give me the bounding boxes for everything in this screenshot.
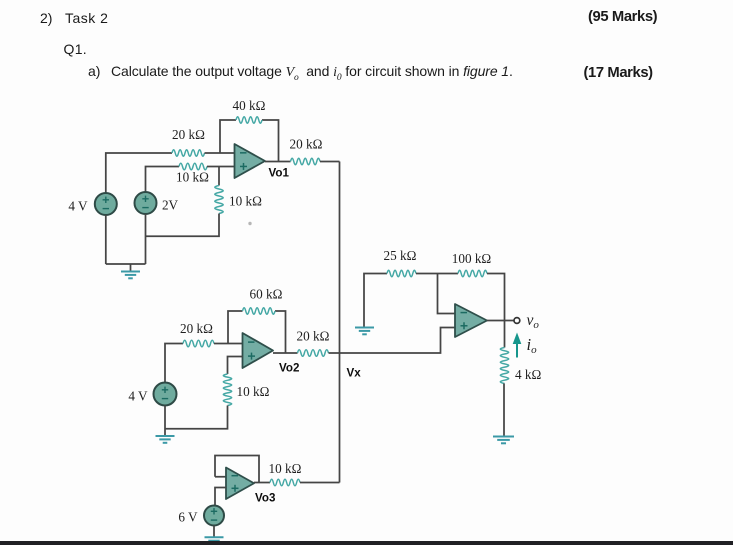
- label 6 V: [178, 510, 198, 525]
- ground 25 kΩ: [355, 328, 374, 335]
- resistor 25 kΩ: [387, 270, 416, 277]
- wire: U1 feedback loop (left riser, top run, right drop): [220, 120, 279, 162]
- terminal vo: [514, 318, 520, 324]
- svg-text:40 kΩ: 40 kΩ: [233, 98, 266, 113]
- wire: junction drop to U4 inverting input: [438, 274, 456, 314]
- wire: stage1 output 20 k to Vx riser: [320, 161, 340, 163]
- svg-text:20 kΩ: 20 kΩ: [297, 329, 330, 344]
- bottom window edge bar: [0, 541, 733, 545]
- svg-text:4 V: 4 V: [128, 389, 148, 404]
- wire: 25 k to 100 k run: [416, 273, 458, 275]
- voltage source 6 V: [204, 506, 224, 526]
- svg-text:25 kΩ: 25 kΩ: [384, 248, 417, 263]
- svg-text:4 V: 4 V: [68, 199, 88, 214]
- wire: U3 non-inverting stub down to 6V: [215, 488, 226, 506]
- svg-text:Vo1: Vo1: [269, 167, 290, 180]
- label 10 kΩ (stage3): [269, 461, 302, 476]
- label 40 kΩ: [233, 98, 266, 113]
- label vo: [527, 312, 540, 331]
- resistor 20 kΩ stage1 output: [291, 158, 321, 165]
- wire: 20 k to op-amp U2 inverting input: [214, 343, 243, 345]
- svg-text:20 kΩ: 20 kΩ: [172, 127, 205, 142]
- resistor 60 kΩ feedback U2: [243, 308, 276, 315]
- voltage source 4 V stage1: [95, 193, 117, 215]
- wire: U1 output to 20 k: [265, 161, 291, 163]
- svg-text:4 kΩ: 4 kΩ: [515, 367, 541, 382]
- label 4 V (stage1): [68, 199, 88, 214]
- wire: stage2 10 k bottom to rail: [165, 406, 228, 429]
- label io: [527, 335, 538, 356]
- svg-text:Vo3: Vo3: [255, 492, 276, 505]
- resistor 20 kΩ stage2 output: [298, 350, 329, 357]
- svg-text:10 kΩ: 10 kΩ: [237, 384, 270, 399]
- label Vo3: [255, 492, 276, 505]
- label 4 kΩ: [515, 367, 541, 382]
- wire: U2 feedback loop: [228, 311, 286, 353]
- resistor 20 kΩ stage2 input: [183, 340, 214, 347]
- wire: + input node down to 10 k grounding resistor: [218, 167, 220, 186]
- wire: 4V(stage2) bottom lead: [164, 406, 166, 436]
- wire: 4V(stage1) top lead up and across to 20 k input: [106, 153, 172, 193]
- label 4 V (stage2): [128, 389, 148, 404]
- label 2V: [162, 198, 179, 213]
- svg-text:60 kΩ: 60 kΩ: [250, 287, 283, 302]
- stray mark: [248, 222, 251, 225]
- resistor 10 kΩ stage2 vertical: [223, 374, 231, 405]
- label 20 kΩ (stage1 output): [290, 137, 323, 152]
- svg-text:io: io: [527, 335, 538, 356]
- wire: 4 k bottom lead: [503, 384, 505, 436]
- voltage source 4 V stage2: [154, 383, 177, 406]
- wire: ground run to 25 k: [364, 274, 387, 327]
- wire: 2V top lead up and across to 10 k input: [146, 167, 180, 193]
- wire: U2 non-inverting stub to 10 k: [228, 357, 243, 375]
- wire: stage1 bottom ground rail: [106, 263, 146, 265]
- svg-text:2V: 2V: [162, 198, 179, 213]
- wire: 10 k bottom to stage1 bottom rail: [146, 214, 220, 237]
- wire: 20 k to op-amp U1 inverting input: [205, 152, 235, 154]
- label 60 kΩ: [250, 287, 283, 302]
- wire: vo node down to 4 k: [504, 321, 506, 348]
- resistor 20 kΩ stage1 inverting input: [172, 150, 205, 157]
- wire: U3 unity feedback loop: [215, 456, 259, 483]
- wire: stage3 10 k to Vx rail: [300, 482, 340, 484]
- label 20 kΩ (stage1 input): [172, 127, 205, 142]
- current arrow io: [513, 333, 522, 358]
- svg-text:Vx: Vx: [347, 367, 362, 380]
- label 10 kΩ (stage1 vertical): [229, 194, 262, 209]
- wire: 4V(stage2) top lead up and across to 20 k input: [165, 344, 183, 383]
- svg-text:10 kΩ: 10 kΩ: [229, 194, 262, 209]
- resistor 4 kΩ: [500, 348, 508, 384]
- resistor 100 kΩ: [458, 270, 487, 277]
- wire: U2 output to 20 k: [273, 352, 298, 354]
- resistor 10 kΩ stage1 non-inverting input: [179, 163, 207, 170]
- svg-text:10 kΩ: 10 kΩ: [269, 461, 302, 476]
- wire: U3 output to 10 k: [254, 482, 270, 484]
- svg-text:6 V: 6 V: [178, 510, 198, 525]
- svg-text:20 kΩ: 20 kΩ: [290, 137, 323, 152]
- label 25 kΩ: [384, 248, 417, 263]
- label 100 kΩ: [452, 251, 492, 266]
- label Vo2: [279, 362, 299, 375]
- wire: 6V bottom lead: [213, 526, 215, 538]
- wire: ground stem stage1: [130, 264, 132, 271]
- op-amp U4: [455, 304, 487, 337]
- op-amp U1: [235, 144, 266, 178]
- label Vx: [347, 367, 362, 380]
- wire: 4V bottom lead to ground rail: [105, 215, 107, 264]
- resistor 40 kΩ feedback U1: [236, 117, 262, 124]
- op-amp U2: [243, 333, 274, 368]
- resistor 10 kΩ stage3 output: [270, 479, 300, 486]
- ground stage2: [156, 436, 175, 443]
- node Vx vertical rail: [339, 162, 341, 483]
- label 20 kΩ (stage2 input): [180, 321, 213, 336]
- wire: Vo2 through node Vx to U4 non-inverting riser: [329, 328, 456, 354]
- wire: 100 k to feedback drop: [487, 274, 505, 321]
- svg-text:20 kΩ: 20 kΩ: [180, 321, 213, 336]
- label Vo1: [269, 167, 290, 180]
- svg-text:Vo2: Vo2: [279, 362, 299, 375]
- wire: 2V bottom lead to ground rail: [145, 214, 147, 264]
- label 20 kΩ (stage2 output): [297, 329, 330, 344]
- ground 6V: [205, 537, 224, 544]
- ground 4 kΩ: [493, 437, 514, 444]
- voltage source 2 V: [135, 192, 157, 214]
- op-amp U3: [226, 468, 254, 500]
- resistor 10 kΩ stage1 to bottom rail: [215, 186, 223, 214]
- wire: U4 output to terminal: [487, 320, 514, 322]
- ground stage1: [121, 272, 140, 279]
- svg-text:vo: vo: [527, 312, 540, 331]
- wire: 10 k to op-amp U1 non-inverting input: [207, 166, 235, 168]
- label 10 kΩ (stage2): [237, 384, 270, 399]
- svg-text:10 kΩ: 10 kΩ: [176, 170, 209, 185]
- label 10 kΩ (stage1 input): [176, 170, 209, 185]
- svg-text:100 kΩ: 100 kΩ: [452, 251, 492, 266]
